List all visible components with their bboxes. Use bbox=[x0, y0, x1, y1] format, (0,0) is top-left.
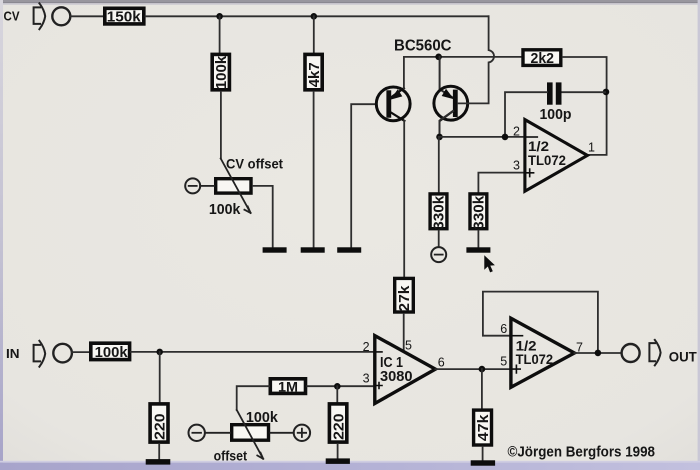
svg-text:3: 3 bbox=[513, 158, 520, 172]
svg-text:TL072: TL072 bbox=[528, 153, 566, 168]
wire 220 left to ground bbox=[158, 444, 160, 459]
wire 330k left to negative supply bbox=[438, 231, 440, 246]
wire Q2 collector bbox=[440, 111, 454, 136]
resistor 4k7 (vertical) bbox=[305, 54, 323, 89]
wire IN junction down to 220 bbox=[159, 352, 161, 404]
negative supply symbol (CV offset) bbox=[185, 178, 214, 193]
wire Q1 collector down to 27k bbox=[403, 121, 405, 277]
wire U2 feedback loop pin 7 to pin 6 bbox=[483, 292, 598, 352]
OUT output jack symbol bbox=[622, 340, 661, 366]
svg-text:330k: 330k bbox=[432, 195, 448, 230]
node OUT label bbox=[669, 348, 697, 364]
ground (4k7) bbox=[301, 247, 325, 252]
svg-text:5: 5 bbox=[500, 355, 507, 369]
svg-text:47k: 47k bbox=[475, 414, 492, 441]
wire IC1 out to U2 pin 5 bbox=[435, 368, 511, 370]
wire CV offset pot right to ground bbox=[253, 186, 273, 247]
svg-text:1: 1 bbox=[588, 140, 595, 154]
pin 3 label (U1) bbox=[513, 158, 520, 172]
wire top rail down to 100k bbox=[219, 16, 221, 53]
wire 1M right to IC1 pin 3 bbox=[307, 385, 375, 387]
svg-text:3: 3 bbox=[363, 371, 370, 385]
svg-text:100k: 100k bbox=[213, 55, 230, 89]
svg-text:220: 220 bbox=[152, 413, 169, 440]
wire junction down to 47k bbox=[481, 369, 483, 410]
wire pin 2 net bbox=[440, 136, 525, 138]
ground (220 left) bbox=[146, 459, 171, 465]
svg-text:6: 6 bbox=[438, 355, 445, 369]
resistor 1M bbox=[270, 379, 305, 395]
ground (47k) bbox=[471, 460, 495, 465]
svg-text:220: 220 bbox=[330, 413, 347, 440]
resistor 220 (left, vertical) bbox=[150, 404, 168, 442]
svg-text:2: 2 bbox=[513, 124, 520, 138]
node IN label bbox=[6, 346, 20, 361]
wire cap right to output node bbox=[562, 91, 605, 93]
junction dot top rail / 4k7 bbox=[311, 13, 318, 20]
op-amp U2 1/2 TL072 bbox=[511, 318, 575, 387]
ground (Q1 base) bbox=[337, 247, 361, 252]
svg-text:offset: offset bbox=[214, 449, 248, 464]
svg-text:1M: 1M bbox=[278, 379, 298, 395]
IN input jack symbol bbox=[34, 341, 72, 367]
transistor Q2 BC560C bbox=[434, 86, 468, 120]
pin 5 label (U2) bbox=[500, 355, 507, 369]
junction dot Q2 collector bbox=[436, 134, 443, 141]
wire emitter rail to 2k2 bbox=[404, 56, 522, 58]
svg-text:6: 6 bbox=[500, 322, 507, 336]
wire 27k to IC1 pin 5 bbox=[403, 314, 405, 350]
wire 2k2 right down to output node bbox=[563, 57, 607, 155]
wire 47k to ground bbox=[482, 447, 484, 461]
wire Q1 emitter up to rail bbox=[403, 57, 405, 88]
copyright text bbox=[508, 445, 656, 461]
potentiometer offset 100k bbox=[214, 410, 279, 464]
svg-text:5: 5 bbox=[405, 338, 412, 352]
potentiometer CV offset 100k bbox=[209, 159, 251, 218]
node CV label bbox=[4, 8, 20, 23]
ground (330k right) bbox=[466, 247, 490, 252]
resistor 27k (vertical) bbox=[395, 278, 414, 312]
junction dot output node / cap bbox=[603, 89, 610, 96]
wire top rail down to 4k7 bbox=[313, 16, 315, 53]
capacitor 100p bbox=[540, 82, 572, 123]
wire 1M left to offset wiper bbox=[237, 386, 269, 410]
pin 7 label (U2) bbox=[576, 341, 583, 355]
svg-text:100p: 100p bbox=[540, 107, 572, 123]
ground (CV offset pot) bbox=[263, 247, 287, 252]
resistor 47k (vertical) bbox=[474, 410, 492, 445]
pin 5 label (IC1) bbox=[405, 338, 412, 352]
svg-text:CV: CV bbox=[4, 8, 20, 23]
CV input jack symbol bbox=[34, 3, 71, 29]
op-amp U1 1/2 TL072 bbox=[525, 120, 588, 192]
wire CV jack to R 150k bbox=[70, 15, 103, 17]
svg-text:100k: 100k bbox=[246, 410, 279, 426]
junction dot IN / 220 bbox=[156, 349, 163, 356]
wire 4k7 to ground bbox=[313, 92, 315, 247]
transistor Q1 BC560C bbox=[376, 87, 410, 121]
resistor 150k bbox=[105, 8, 144, 25]
resistor 220 (right, vertical) bbox=[329, 404, 347, 442]
wire 100k to IC1 pin 2 bbox=[131, 351, 375, 353]
junction dot output / feedback bbox=[595, 350, 602, 357]
pin 1 label (U1) bbox=[588, 140, 595, 154]
svg-text:2k2: 2k2 bbox=[531, 50, 555, 67]
pin 6 label (IC1) bbox=[438, 355, 445, 369]
pin 6 label (U2) bbox=[500, 322, 507, 336]
mouse cursor bbox=[484, 255, 495, 272]
svg-text:BC560C: BC560C bbox=[394, 37, 452, 54]
pin 3 label (IC1) bbox=[363, 371, 370, 385]
wire junction down to 220 right bbox=[336, 386, 338, 404]
svg-text:150k: 150k bbox=[107, 8, 142, 25]
svg-text:CV offset: CV offset bbox=[226, 157, 283, 172]
svg-text:27k: 27k bbox=[396, 285, 413, 312]
wire 330k right to ground bbox=[477, 231, 479, 248]
svg-text:100k: 100k bbox=[209, 202, 241, 218]
svg-text:3080: 3080 bbox=[380, 369, 413, 385]
wire CV rail corner down to Q2 base with crossover hop bbox=[458, 16, 494, 103]
junction dot pin 2 / cap bbox=[502, 134, 509, 141]
svg-text:330k: 330k bbox=[472, 195, 488, 230]
resistor 100k (CV, vertical) bbox=[212, 54, 230, 89]
wire IN jack to 100k bbox=[72, 351, 89, 353]
junction dot IC1 out / 47k bbox=[479, 366, 486, 373]
label BC560C bbox=[394, 37, 452, 54]
op-amp IC1 3080 bbox=[375, 336, 436, 404]
svg-text:TL072: TL072 bbox=[516, 352, 554, 367]
wire Q1 base to ground bbox=[351, 104, 376, 247]
wire cap left to op-amp pin 2 bbox=[505, 92, 547, 136]
svg-text:2: 2 bbox=[363, 340, 370, 354]
svg-text:100k: 100k bbox=[95, 344, 129, 361]
junction dot 1M / 220 bbox=[334, 383, 341, 390]
svg-text:OUT: OUT bbox=[669, 348, 697, 364]
ground (220 right) bbox=[326, 458, 350, 464]
resistor 330k (left, vertical) bbox=[430, 194, 448, 230]
wire 100k down to CV offset wiper bbox=[220, 92, 222, 159]
resistor 330k (right, vertical) bbox=[470, 194, 488, 230]
wire U2 out to OUT jack bbox=[574, 352, 621, 354]
wire pin 3 to 330k bbox=[478, 173, 525, 192]
negative supply symbol (330k) bbox=[431, 247, 446, 262]
wire 220 right to ground bbox=[337, 444, 339, 458]
positive supply symbol (offset) bbox=[270, 425, 310, 441]
node CV offset label bbox=[226, 157, 283, 172]
wire Q2 emitter bbox=[440, 57, 453, 98]
negative supply symbol (offset) bbox=[189, 425, 231, 441]
svg-text:©Jörgen Bergfors 1998: ©Jörgen Bergfors 1998 bbox=[508, 445, 656, 461]
pin 2 label (IC1) bbox=[363, 340, 370, 354]
pin 2 label (U1) bbox=[513, 124, 520, 138]
wire top CV rail bbox=[146, 15, 489, 17]
junction dot Q2 emitter on rail bbox=[435, 54, 442, 61]
wire 330k left top bbox=[438, 137, 440, 192]
junction dot top rail / 100k bbox=[216, 13, 223, 20]
resistor 2k2 bbox=[523, 50, 561, 67]
svg-text:4k7: 4k7 bbox=[306, 62, 323, 87]
svg-text:IN: IN bbox=[6, 346, 20, 361]
resistor 100k (IN) bbox=[91, 343, 130, 361]
